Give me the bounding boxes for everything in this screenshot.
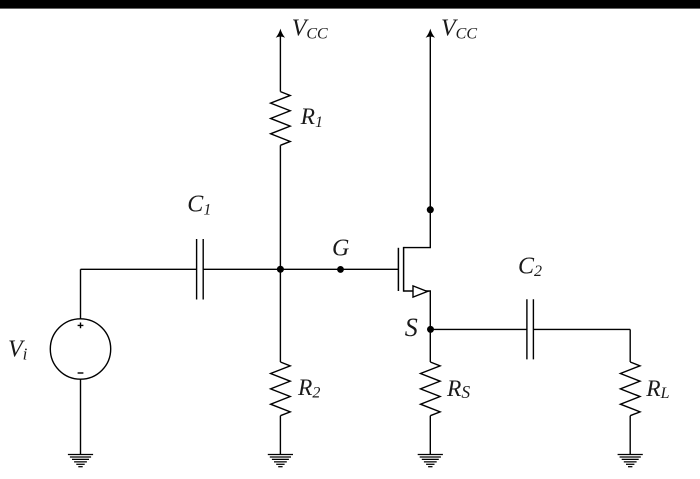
minus sign	[78, 372, 84, 374]
svg-text:G: G	[332, 236, 349, 262]
source wire	[404, 291, 431, 329]
wire RS to ground	[429, 416, 431, 455]
capacitor C2	[527, 299, 534, 359]
resistor RS	[421, 362, 441, 416]
drain wire	[404, 33, 431, 248]
wire down to RL	[629, 329, 631, 362]
capacitor C1	[197, 239, 204, 300]
plus sign	[78, 323, 84, 329]
wire R1 to node	[279, 145, 281, 269]
source arrow of M1	[413, 286, 427, 297]
wire R2 to ground	[279, 416, 281, 455]
svg-text:S: S	[405, 313, 418, 342]
transistor M1 (nmos) gate bar	[397, 248, 399, 291]
node G dot	[337, 266, 344, 273]
transistor M1 channel bar	[403, 247, 405, 292]
wire Vi top to rail	[80, 269, 82, 319]
ground (under Vi)	[68, 455, 93, 467]
wire node to R2	[279, 269, 281, 362]
wire S to C2	[430, 328, 527, 330]
node junction dot	[277, 266, 284, 273]
wire VCC to R1	[279, 33, 281, 92]
resistor RL	[620, 362, 640, 416]
wire S to RS	[429, 329, 431, 362]
ground (under RS)	[418, 455, 443, 467]
wire rail left: Vi to C1	[81, 268, 197, 270]
VCC arrow (left supply)	[276, 29, 285, 38]
voltage source Vi	[50, 319, 110, 379]
ground (under RL)	[618, 455, 643, 467]
wire Vi bottom to ground	[80, 379, 82, 454]
VCC arrow (right supply)	[426, 29, 435, 38]
resistor R2	[271, 362, 291, 416]
resistor R1	[271, 92, 291, 146]
wire C2 to RL	[533, 328, 630, 330]
wire C1 to gate	[203, 268, 398, 270]
node S dot	[427, 326, 434, 333]
wire RL to ground	[629, 416, 631, 455]
junction dot on drain wire	[427, 206, 434, 213]
top black bar	[0, 0, 700, 9]
ground (under R2)	[268, 455, 293, 467]
